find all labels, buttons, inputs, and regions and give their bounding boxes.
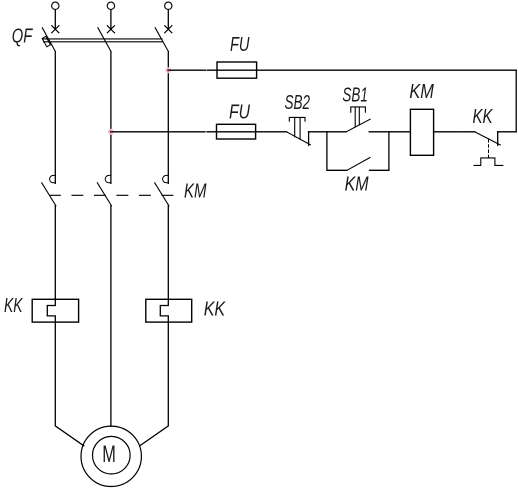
coil KM — [410, 109, 433, 155]
label SB1 — [342, 84, 368, 106]
breaker contact X pole 1 — [52, 26, 59, 33]
svg-text:SB1: SB1 — [342, 84, 368, 106]
contactor KM fixed contact arc pole 2 — [105, 175, 111, 182]
contactor KM blade pole 2 — [97, 183, 111, 206]
node junction dot FU1 tap halo — [165, 67, 171, 73]
label M (motor) — [102, 441, 116, 468]
wire SB2 to SB1 — [309, 131, 347, 133]
wire pole 3 lower — [140, 206, 168, 446]
wire pole 1 lower — [47, 206, 84, 446]
wire KK top link — [498, 131, 517, 133]
svg-text:FU: FU — [229, 102, 250, 124]
pushbutton SB1 plunger — [351, 107, 366, 127]
label FU (second fuse) — [229, 102, 250, 124]
thermal relay contact KK blade — [475, 132, 501, 145]
wire FU1 row right — [207, 69, 516, 71]
wire pole 1 upper — [54, 52, 56, 184]
breaker contact X pole 3 — [165, 26, 172, 33]
label KK (right thermal element) — [204, 299, 227, 321]
label SB2 — [285, 92, 311, 114]
pushbutton SB2 right lead — [308, 132, 310, 146]
terminal L2 — [107, 2, 114, 9]
circuit breaker QF blade pole 2 — [98, 28, 111, 52]
motor M outer circle — [81, 426, 141, 486]
fuse FU1 — [217, 62, 257, 78]
contactor KM blade pole 3 — [155, 183, 169, 206]
KM auxiliary contact blade — [347, 158, 370, 171]
wire coil to KK — [434, 131, 456, 133]
label KK (left thermal element) — [4, 295, 24, 317]
label QF — [12, 25, 34, 47]
terminal L1 — [52, 2, 59, 9]
circuit breaker QF blade pole 3 — [155, 28, 168, 52]
svg-text:KM: KM — [184, 180, 207, 202]
KM auxiliary contact branch right — [370, 132, 389, 171]
svg-text:KM: KM — [345, 174, 369, 196]
label FU (top fuse) — [230, 34, 250, 56]
pushbutton SB1 blade — [346, 119, 370, 132]
label KM (coil) — [409, 81, 434, 103]
svg-text:QF: QF — [12, 25, 34, 47]
motor M inner circle — [93, 436, 131, 474]
label KK (thermal contact) — [473, 106, 494, 128]
wire lead L2 — [110, 10, 112, 30]
wire pole 3 upper — [167, 52, 169, 184]
pushbutton SB2 plunger — [289, 117, 305, 139]
svg-text:KK: KK — [204, 299, 227, 321]
wire lead L3 — [167, 10, 169, 30]
QF linkage double line — [44, 39, 163, 42]
node junction dot control tap halo — [108, 129, 114, 135]
wire pole 2 upper — [110, 52, 112, 184]
circuit breaker QF blade pole 1 — [42, 28, 55, 52]
thermal relay KK actuator symbol — [474, 158, 503, 166]
contactor KM blade pole 1 — [42, 183, 56, 206]
thermal element KK right box — [146, 299, 192, 322]
thermal relay KK actuator dashed link — [488, 140, 490, 158]
svg-text:KK: KK — [4, 295, 24, 317]
KM auxiliary contact branch left — [327, 132, 347, 171]
wire coil to KK 2 — [457, 131, 475, 133]
thermal element KK left box — [32, 299, 78, 322]
wire lead L1 — [54, 10, 56, 30]
contactor KM linkage dashed line — [50, 194, 173, 196]
thermal relay contact KK right lead — [497, 132, 499, 146]
wire right drop — [515, 70, 517, 132]
QF handle rectangle on pole 1 — [42, 36, 50, 46]
breaker contact X pole 2 — [107, 26, 114, 33]
label KM (auxiliary contact) — [345, 174, 369, 196]
terminal L3 — [165, 2, 172, 9]
svg-text:SB2: SB2 — [285, 92, 311, 114]
wire control row to SB2 — [207, 131, 287, 133]
svg-text:FU: FU — [230, 34, 250, 56]
wire pole 2 lower — [110, 206, 112, 427]
node junction dot FU1 tap center — [167, 69, 169, 71]
node junction dot control tap center — [110, 131, 112, 133]
label KM (main contacts) — [184, 180, 207, 202]
svg-text:M: M — [102, 441, 116, 468]
wire FU1 row left — [168, 69, 205, 71]
wire SB1 right — [369, 131, 410, 133]
wire control row from tap — [111, 131, 205, 133]
contactor KM fixed contact arc pole 3 — [163, 175, 169, 182]
svg-text:KK: KK — [473, 106, 494, 128]
svg-text:KM: KM — [409, 81, 434, 103]
fuse FU2 — [217, 124, 256, 139]
pushbutton SB2 blade — [287, 132, 311, 145]
contactor KM fixed contact arc pole 1 — [50, 175, 56, 182]
